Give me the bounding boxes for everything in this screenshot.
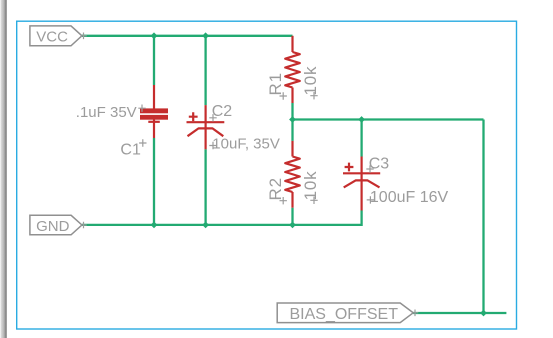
svg-text:.1uF 35V: .1uF 35V [76,104,137,121]
svg-text:C2: C2 [212,103,233,120]
svg-text:10uF, 35V: 10uF, 35V [212,136,280,153]
svg-text:C1: C1 [120,142,141,159]
svg-text:VCC: VCC [36,29,68,46]
svg-text:BIAS_OFFSET: BIAS_OFFSET [290,306,399,323]
svg-text:R1: R1 [266,72,285,95]
svg-text:GND: GND [36,218,70,235]
svg-text:100uF 16V: 100uF 16V [370,189,449,206]
svg-text:10k: 10k [301,171,320,201]
svg-text:C3: C3 [369,156,390,173]
svg-text:R2: R2 [266,177,285,200]
svg-text:10k: 10k [301,66,320,96]
